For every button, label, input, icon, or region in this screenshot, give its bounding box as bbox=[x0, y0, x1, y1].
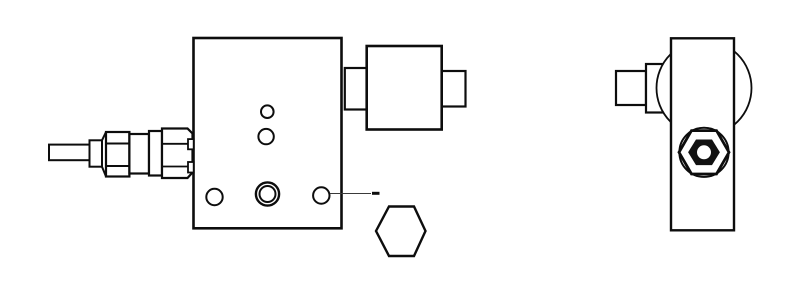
cable bbox=[49, 145, 90, 161]
valve body (side view) bbox=[671, 38, 734, 230]
port hole bottom-left bbox=[206, 189, 222, 205]
nut filled hexagon (side view) bbox=[688, 140, 720, 166]
hex plug (loose) bbox=[376, 207, 426, 257]
cable gland hex flat line upper bbox=[106, 143, 129, 145]
connector body (side view) bbox=[646, 64, 671, 113]
hole upper small bbox=[261, 105, 274, 118]
hole middle small bbox=[258, 129, 273, 144]
connector plug small (side view) bbox=[616, 71, 646, 105]
cable gland end piece bbox=[162, 129, 193, 179]
cable gland hex nut body bbox=[106, 132, 129, 177]
solenoid coil bbox=[367, 46, 442, 130]
port hole bottom-right bbox=[313, 187, 329, 203]
gland claw tab upper bbox=[188, 139, 194, 149]
leader arrow dash bbox=[372, 192, 380, 195]
gland neck line upper bbox=[162, 143, 189, 145]
gland neck line lower bbox=[162, 166, 189, 168]
port hole bottom-center inner ring bbox=[260, 186, 276, 202]
gland claw tab lower bbox=[188, 162, 194, 173]
port hole bottom-center outer ring bbox=[256, 182, 279, 205]
cable gland collar bbox=[90, 140, 103, 166]
cable gland barrel bbox=[129, 134, 149, 174]
nut hexagon outline (side view) bbox=[679, 131, 729, 174]
leader line bbox=[330, 193, 371, 195]
valve body block (front view) bbox=[194, 38, 342, 228]
cable gland hex flat line lower bbox=[106, 165, 129, 167]
coil circle (side view) bbox=[657, 41, 752, 136]
cable gland chamfer bbox=[102, 132, 106, 177]
solenoid nub left bbox=[345, 68, 367, 110]
solenoid nub right bbox=[442, 71, 466, 107]
nut outer circle (side view) bbox=[679, 128, 728, 177]
cable gland ring bbox=[149, 131, 162, 176]
nut center hole (side view) bbox=[697, 145, 711, 159]
